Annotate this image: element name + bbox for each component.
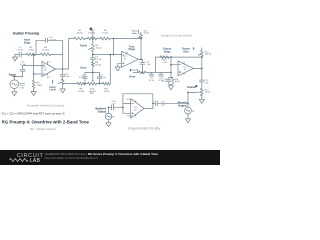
wire R8 to bass box (92, 66, 94, 72)
capacitor C13 (155, 101, 157, 106)
potentiometer R17 Volume (200, 88, 203, 95)
wire wire inv to junction (33, 54, 35, 74)
wire wire C2-R1 (22, 53, 27, 55)
wire wire R3-fb (51, 53, 63, 55)
capacitor C14 (112, 105, 114, 110)
op-amp IC2 1/2 (178, 61, 193, 76)
wire C12-volume (201, 82, 203, 89)
wire pair to ground (169, 84, 173, 86)
svg-text:RL: RL (112, 117, 114, 119)
wire jack to ground (187, 114, 189, 119)
wire rail R4-R5 (85, 38, 88, 40)
wire C4 to pot (62, 76, 64, 80)
svg-text:B IC1: B IC1 (47, 61, 51, 63)
svg-text:LAB: LAB (30, 158, 41, 164)
wire IC2a inv wire (171, 64, 178, 66)
source SIG1 (13, 77, 15, 80)
wire bass line R10-R11 (97, 83, 103, 85)
ground GND8 (185, 119, 190, 123)
ground GND7 (199, 99, 204, 103)
node rail treble node (92, 38, 94, 40)
svg-text:Guitar Preamp: Guitar Preamp (13, 30, 40, 35)
pin stub IC2b top (135, 101, 137, 103)
svg-text:Drive: Drive (129, 75, 136, 79)
resistor R5 (88, 37, 97, 40)
resistor R6 (100, 37, 110, 40)
resistor R16 (172, 78, 175, 84)
svg-text:1 MΩ: 1 MΩ (28, 50, 34, 52)
wire bass line pot-R9 (63, 83, 77, 85)
annotation arrow input level (52, 81, 54, 84)
capacitor C4 (60, 74, 65, 76)
pin stub IC2a bottom (183, 73, 185, 75)
wire wire inv input (34, 73, 42, 75)
svg-text:50 kΩ: 50 kΩ (144, 33, 150, 35)
wire IC1a output wire (55, 68, 68, 70)
svg-text:Tentatively Verified by Circui: Tentatively Verified by CircuitLab (27, 103, 65, 107)
wire IC1b out wire (139, 58, 143, 60)
node wiper node (187, 92, 189, 94)
wire output stage line (156, 56, 202, 58)
feedback loop IC2b (123, 94, 153, 114)
op-amp IC1b polarity marks (123, 63, 125, 65)
pin stub IC2b bottom (135, 114, 137, 116)
resistor R14 (160, 56, 169, 59)
potentiometer R15 Output Gain (201, 48, 203, 51)
svg-text:+IC2 B: +IC2 B (126, 99, 132, 101)
node IC2b in node (122, 107, 124, 109)
wire IC2b noninv (123, 112, 131, 114)
svg-text:100 kΩ: 100 kΩ (205, 54, 212, 56)
svg-text:10 kΩ: 10 kΩ (104, 91, 110, 93)
capacitor C1 (20, 69, 25, 71)
node treble wiper node (92, 54, 94, 56)
wire IC1b inv wire (110, 54, 121, 56)
wire buffered wire 2 (114, 106, 123, 108)
node buffer out node right (187, 103, 189, 105)
capacitor C8 (141, 59, 143, 62)
node fb output node (62, 68, 64, 70)
wiper stem bass pot (92, 72, 94, 79)
wire pot-C5 (92, 52, 94, 58)
node bass node right (99, 83, 101, 85)
svg-text:Gain: Gain (183, 50, 189, 53)
capacitor C4 (62, 69, 64, 74)
node C13 node (152, 103, 154, 105)
svg-text:100 kΩ: 100 kΩ (88, 32, 95, 34)
wire IC1b fb riser (113, 39, 115, 55)
capacitor C3 (46, 38, 48, 42)
svg-text:RG Preamp 4: Overdrive with 2-: RG Preamp 4: Overdrive with 2-Band Tone (2, 120, 90, 125)
ground GND5 (115, 67, 120, 71)
output jack J1 (185, 107, 192, 114)
node os pot node (201, 56, 203, 58)
resistor R3 (41, 53, 51, 56)
node IC1b out node (140, 59, 142, 61)
pin A label IC1a (47, 74, 49, 76)
svg-text:47 nF: 47 nF (17, 50, 23, 52)
op-amp IC1 1/2 (42, 61, 55, 76)
svg-text:47 nF: 47 nF (20, 64, 26, 66)
svg-text:10 kΩ: 10 kΩ (96, 48, 102, 50)
wire tone stack left riser (69, 39, 74, 70)
resistor R11 (103, 82, 111, 85)
ground GND3 (12, 92, 17, 96)
wire treble wiper to tone stage (93, 54, 111, 56)
svg-text:Input: Input (9, 73, 16, 77)
capacitor C5 (91, 58, 96, 60)
node os line left node (170, 56, 172, 58)
node tone gain node (140, 38, 142, 40)
capacitor C10 (159, 74, 164, 76)
op-amp IC2b polarity marks (132, 113, 134, 115)
node IC2a out node (201, 68, 203, 70)
ground GND4 (60, 89, 65, 93)
capacitor C1 (22, 66, 24, 69)
pin stub IC1b top (126, 52, 128, 54)
svg-text:1 MΩ: 1 MΩ (36, 85, 42, 87)
svg-text:Output: Output (98, 110, 107, 114)
potentiometer R12 Tone Gain (140, 32, 142, 33)
wire os line R15 stub (201, 55, 203, 58)
svg-text:47 nF: 47 nF (149, 80, 155, 82)
svg-text:Treble: Treble (80, 45, 88, 48)
capacitor C2 (19, 52, 21, 57)
svg-text:2/2: 2/2 (124, 58, 127, 60)
wire feedback loop left (36, 40, 46, 54)
annotation arrow tone gain (137, 31, 139, 34)
wire R2 to ground (33, 89, 35, 92)
svg-text:RG = Richter Original: RG = Richter Original (30, 127, 56, 131)
ground GND1 (14, 54, 16, 57)
capacitor C10 (160, 72, 162, 74)
svg-text:47 nF: 47 nF (101, 77, 107, 79)
resistor R2 (33, 74, 35, 80)
capacitor C7 (99, 72, 101, 77)
svg-text:Design by Kurbo Richter: Design by Kurbo Richter (161, 33, 192, 37)
svg-text:Experimental Circuitry: Experimental Circuitry (128, 127, 161, 131)
annotation arrow output gain (193, 48, 195, 50)
svg-text:Bass: Bass (81, 66, 88, 70)
capacitor C11 (167, 79, 171, 81)
wire feedback loop right (48, 40, 63, 69)
potentiometer R4 Input Level (61, 79, 64, 84)
svg-text:1 µF: 1 µF (65, 76, 70, 78)
node IC2a inv node (170, 64, 172, 66)
op-amp IC1a input polarity marks (43, 65, 45, 67)
wire gain leg (170, 72, 172, 77)
svg-text:Volume: Volume (187, 86, 196, 89)
svg-text:10 kΩ: 10 kΩ (205, 92, 211, 94)
resistor R4 (74, 37, 85, 40)
node IC1b inv node (110, 54, 112, 56)
wiper wire volume (188, 91, 197, 93)
wire tone gain drop (140, 39, 142, 60)
wire buffer out wire2 (157, 102, 188, 104)
resistor R8 (92, 60, 94, 62)
svg-text:Level: Level (49, 89, 56, 92)
wiper mark R10 (91, 92, 94, 94)
wire bass riser (109, 55, 111, 84)
capacitor C8 (140, 62, 145, 64)
node bass stem node (92, 72, 94, 74)
op-amp IC1 2/2 (122, 51, 139, 67)
pin B label IC1a (47, 63, 49, 65)
capacitor C11 (168, 78, 170, 79)
wire wire noninv input (23, 65, 42, 67)
op-amp IC2 2/2 (131, 99, 145, 118)
wire source to ground (13, 89, 15, 92)
resistor R9 (77, 82, 85, 85)
svg-text:2.2 nF: 2.2 nF (162, 81, 168, 83)
potentiometer R7 Treble (92, 39, 94, 45)
wire input wire (13, 76, 23, 78)
power flag V+ (92, 30, 94, 39)
svg-text:Output: Output (178, 103, 187, 107)
svg-text:RL: RL (192, 111, 194, 113)
svg-text:1/2: 1/2 (44, 70, 47, 72)
node input node (14, 76, 16, 78)
wire drive line (146, 71, 171, 73)
capacitor C12 (200, 80, 205, 82)
svg-text:1/2: 1/2 (184, 69, 187, 71)
resistor R1 (27, 53, 36, 56)
wire rail R5-R6 (97, 38, 101, 40)
ground GND1 (12, 57, 17, 61)
wire bass line R9-R10 (85, 83, 88, 85)
wire drive line left (133, 71, 139, 73)
svg-text:Stage: Stage (164, 50, 171, 53)
svg-text:10 kΩ: 10 kΩ (77, 32, 83, 34)
svg-text:470 kΩ: 470 kΩ (42, 50, 49, 52)
wire volume to ground (201, 96, 203, 100)
wire IC1b noninv to ground (118, 63, 122, 67)
node rail riser node (113, 54, 115, 56)
wire IC2a inv riser (170, 57, 172, 72)
potentiometer R10 Bass (88, 82, 97, 85)
svg-text:10 kΩ: 10 kΩ (78, 91, 84, 93)
svg-text:47 nF: 47 nF (79, 77, 85, 79)
pin stub IC2a top (183, 62, 185, 64)
node gain leg node (170, 72, 172, 74)
wire bass box top (85, 71, 100, 73)
svg-text:IC1 + IC2 = OPA2134PA dual FET: IC1 + IC2 = OPA2134PA dual FET-input op-… (2, 112, 65, 116)
wire IC2b inv (123, 103, 131, 105)
op-amp IC2a polarity marks (179, 71, 181, 73)
svg-text:Stage: Stage (128, 48, 135, 51)
capacitor C9 (151, 72, 153, 74)
wire IC2a out wire (193, 67, 201, 69)
capacitor C6 (84, 72, 86, 77)
node junction R1-R3 (33, 54, 35, 56)
node buffered node (108, 107, 110, 109)
wire drive to R14 riser (155, 57, 157, 72)
wire og drop (201, 57, 203, 80)
wire normal output drop (187, 92, 189, 107)
node rail inv node (113, 38, 115, 40)
svg-text:2/2: 2/2 (134, 109, 137, 111)
capacitor C9 (149, 74, 154, 76)
ground GND9 (106, 123, 111, 127)
svg-text:1 kHz: 1 kHz (19, 87, 24, 89)
node inv node (33, 73, 35, 75)
wire wire R1-R3 (36, 53, 41, 55)
wire buffer out wire (153, 102, 155, 104)
wire buffered wire (109, 106, 112, 108)
svg-text:10 kΩ: 10 kΩ (95, 64, 101, 66)
ground GND2 (31, 92, 36, 96)
svg-text:Gain: Gain (132, 33, 138, 35)
svg-text:−IC2 A: −IC2 A (126, 114, 132, 117)
svg-text:2.2 nF: 2.2 nF (95, 59, 102, 61)
ground GND6 (168, 86, 173, 90)
svg-text:10 kΩ: 10 kΩ (102, 32, 108, 34)
wire pot to ground (62, 84, 64, 89)
node bass node left (84, 83, 86, 85)
wire jack2 to ground (108, 120, 110, 123)
capacitor C7 (97, 77, 102, 79)
wire C1 to input line (22, 71, 24, 77)
wire input line gnd-C2 (15, 53, 19, 55)
node drive node C8 (142, 72, 144, 74)
svg-text:1 kΩ: 1 kΩ (162, 62, 167, 64)
svg-text:10 kΩ: 10 kΩ (175, 81, 181, 83)
svg-text:Stage: Stage (24, 42, 31, 45)
wire IC2b out wire (144, 107, 153, 109)
wire rail to tone gain (110, 38, 141, 40)
capacitor C6 (83, 77, 88, 79)
footer bar (0, 150, 220, 165)
svg-text:R13: R13 (132, 70, 135, 72)
potentiometer R13 Drive (130, 69, 131, 71)
svg-text:http://circuitlab.com/circuit/: http://circuitlab.com/circuit/4bd9hw0c17… (45, 156, 98, 160)
